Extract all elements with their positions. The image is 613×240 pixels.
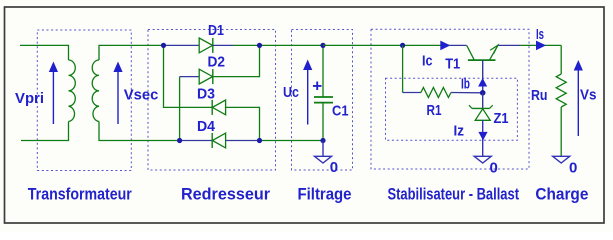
wire D2 cathode up to + node (213, 45, 260, 76)
junction base node (480, 90, 486, 96)
svg-text:T1: T1 (445, 56, 460, 73)
svg-text:Ib: Ib (461, 76, 470, 93)
svg-text:Z1: Z1 (494, 110, 509, 127)
transistor T1 (467, 45, 498, 60)
block box regulation inner (R1/Z1) (386, 78, 518, 140)
wire top rail dot A to D1 anode (164, 44, 200, 46)
wire bottom rail B to D4 cathode (180, 140, 213, 142)
svg-text:Vsec: Vsec (124, 87, 159, 104)
inductor primary winding of transformer (69, 60, 76, 122)
arrow Vsec voltage (113, 62, 122, 125)
wire rail to transistor collector (403, 44, 450, 46)
wire base node to zener (482, 93, 484, 109)
diode D2 (199, 69, 213, 84)
wire R1 to base node (451, 92, 483, 94)
wire 0V rail to filter (260, 140, 324, 142)
inductor secondary winding of transformer (92, 60, 99, 122)
wire D3 anode down to 0V rail (226, 107, 260, 140)
wire zener to ground (482, 120, 484, 156)
arrow Vpri voltage (49, 62, 58, 125)
svg-text:Ru: Ru (531, 87, 548, 104)
svg-text:Iz: Iz (454, 123, 465, 140)
wire C1 bottom lead (322, 103, 324, 141)
wire C1 top lead (322, 45, 324, 97)
svg-text:D2: D2 (208, 54, 226, 71)
junction stabiliser branch (400, 43, 405, 48)
wire output corner down to Ru (560, 45, 562, 74)
diode D1 (199, 38, 213, 53)
junction filter top (320, 43, 325, 48)
capacitor C1 (314, 97, 333, 103)
junction node 0V bottom right of bridge (257, 138, 262, 143)
wire primary bottom lead (21, 122, 69, 141)
wire Ru to ground (560, 107, 562, 156)
ground stabiliser (474, 156, 491, 163)
junction node A top (161, 43, 166, 48)
wire secondary top lead to rectifier (99, 45, 164, 60)
svg-text:D1: D1 (208, 22, 224, 39)
zener diode Z1 (469, 105, 493, 120)
svg-text:0: 0 (569, 160, 577, 177)
svg-text:Redresseur: Redresseur (181, 184, 270, 203)
svg-text:+: + (312, 76, 322, 95)
resistor Ru (556, 74, 566, 107)
wire top rail primary side (20, 45, 69, 60)
svg-text:Transformateur: Transformateur (28, 184, 132, 203)
svg-text:Vpri: Vpri (15, 90, 44, 107)
wire branch down to R1 (402, 45, 404, 92)
svg-text:Vs: Vs (580, 87, 597, 104)
wire base down (482, 60, 484, 93)
svg-text:Stabilisateur - Ballast: Stabilisateur - Ballast (388, 184, 520, 203)
wire D4 anode to 0V node (226, 140, 260, 142)
svg-text:0: 0 (330, 159, 338, 176)
wire emitter to output (498, 44, 520, 46)
junction filter bottom (320, 138, 325, 143)
wire secondary bottom lead to rectifier (99, 122, 180, 141)
svg-text:Charge: Charge (535, 184, 588, 203)
svg-text:Filtrage: Filtrage (298, 184, 352, 203)
svg-text:D3: D3 (197, 85, 215, 102)
block box Filtrage (292, 30, 353, 171)
junction node + top right of bridge (257, 43, 262, 48)
arrow Vs voltage (574, 60, 583, 136)
arrow Ic current (440, 41, 450, 51)
svg-text:0: 0 (490, 160, 498, 177)
wire filter ground stem (322, 141, 324, 157)
svg-text:D4: D4 (197, 118, 216, 135)
resistor R1 (421, 88, 451, 98)
wire node B branch down to D2 (179, 77, 181, 141)
diode D4 (212, 133, 225, 148)
wire node A down to D3 cathode (164, 45, 213, 107)
block box Stabilisateur-Ballast (371, 29, 529, 169)
wire D1 cathode to + node (213, 44, 233, 46)
svg-text:Uc: Uc (283, 84, 299, 101)
wire + rail filter to stabiliser (323, 44, 403, 46)
junction node B bottom left of bridge (177, 138, 182, 143)
diode D3 (212, 100, 225, 115)
svg-text:Ic: Ic (422, 53, 433, 70)
arrow Uc voltage (303, 60, 312, 125)
ground load (553, 156, 570, 163)
svg-text:C1: C1 (332, 103, 349, 120)
block box Redresseur (148, 30, 276, 171)
arrow Iz current (478, 132, 487, 141)
arrow Is current (536, 41, 546, 51)
block box Transformateur (37, 30, 131, 171)
ground filter (315, 156, 332, 163)
wire + rail to filter (260, 44, 324, 46)
svg-text:Is: Is (536, 26, 544, 43)
arrow Ib current (478, 78, 487, 87)
svg-text:R1: R1 (427, 102, 442, 119)
